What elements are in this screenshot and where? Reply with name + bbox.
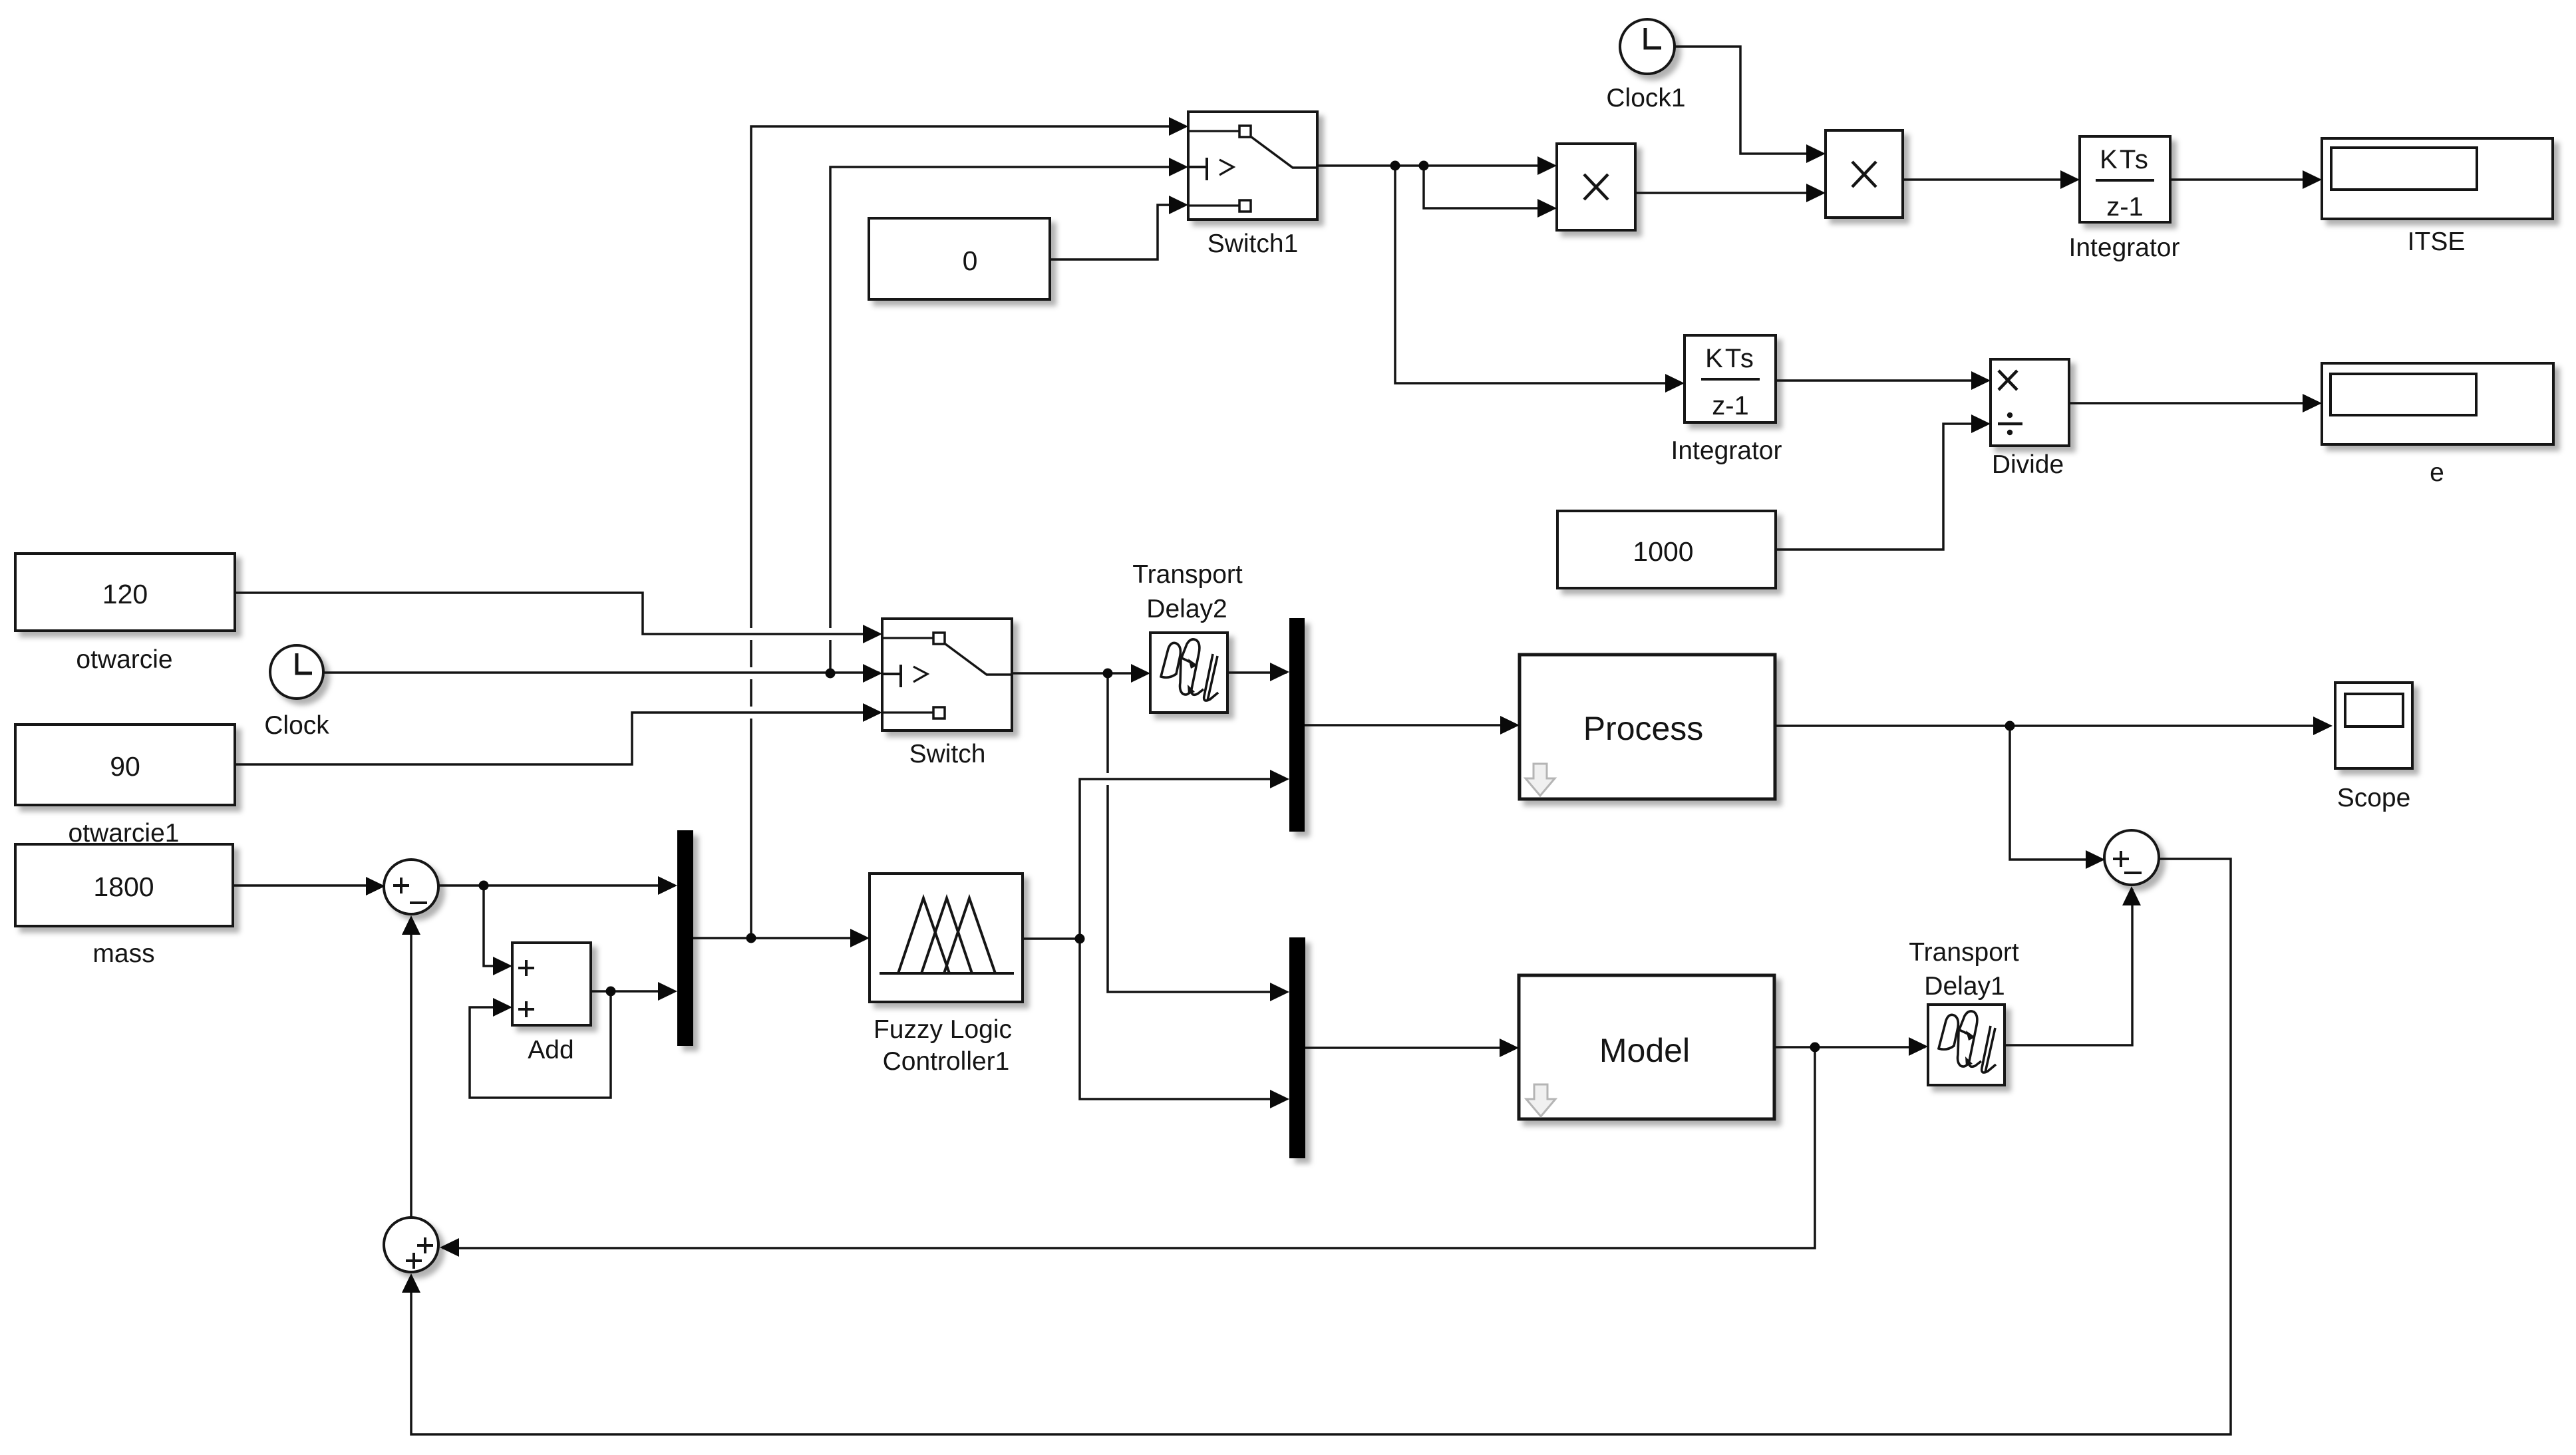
arrowhead into Divide input2 [1971,414,1991,433]
display block e [2322,363,2553,444]
junction 1 after Switch1 [1390,161,1400,171]
svg-text:Process: Process [1583,710,1704,747]
wire branch to Product input2 [1424,166,1554,208]
scope block Scope [2335,683,2412,768]
arrowhead into Transport Delay2 [1131,664,1150,683]
wire Switch output branch to Mux3 input1 [1108,673,1287,992]
FLC membership triangle 3 [944,898,995,973]
svg-text:Fuzzy Logic: Fuzzy Logic [874,1015,1012,1044]
Transport Delay2 icon [1161,639,1218,701]
arrowhead into Switch input2 [863,664,882,683]
svg-text:otwarcie: otwarcie [76,645,172,674]
Fuzzy Logic Controller1 membership baseline [880,972,1014,975]
svg-text:120: 120 [102,579,148,609]
wire Add output to Mux1 input2 [591,990,675,993]
svg-text:ITSE: ITSE [2408,228,2466,256]
svg-text:Switch: Switch [909,740,986,768]
ITSE display inner screen [2331,148,2477,190]
constant block otwarcie value 120 [15,554,235,631]
junction on Sum1 output [479,881,489,891]
svg-text:0: 0 [963,245,978,276]
wire constant 0 to Switch1 input3 [1050,205,1186,259]
arrowhead into Mux3 input1 [1270,983,1289,1001]
wire Fuzzy Logic Controller1 output to junction [1023,937,1080,940]
Transport Delay1 icon arrowheads [1965,1031,1975,1066]
svg-text:z-1: z-1 [2106,192,2144,222]
wire Sum2 output bottom feedback loop to Sum3 [411,859,2231,1434]
Model look-inside gray arrow [1526,1084,1555,1116]
arrowhead into Mux3 input2 [1270,1090,1289,1108]
constant block value 1000 [1557,511,1776,588]
Sum3 plus sign upper right [417,1237,433,1253]
svg-text:Transport: Transport [1909,938,2019,967]
junction on Add output [606,987,616,997]
arrowhead into Switch input3 [863,703,882,722]
arrowhead into Mux2 input2 [1270,770,1289,788]
Switch1 internal port line and square input3 [1188,204,1239,206]
wire junction to Switch1 input1 (vertical with crossover gaps) [751,126,1186,938]
arrowhead into Product input2 [1537,199,1557,218]
integrator block Integrator (top) [2080,136,2170,222]
Switch internal criteria mark |> [882,665,901,687]
wire Sum3 output to Sum1 bottom input [410,918,412,1217]
junction on FLC input wire [746,933,756,943]
mux Mux3 [1289,937,1305,1158]
svg-text:Model: Model [1599,1032,1690,1069]
arrowhead into Integrator top [2060,170,2080,189]
subsystem block Model [1519,975,1774,1119]
display block ITSE [2322,138,2553,219]
svg-text:KTs: KTs [1705,344,1756,373]
wire Switch1 branch to middle Integrator [1395,166,1682,383]
FLC membership triangle 1 [898,898,949,973]
sum junction Sum1 (+ -) [384,860,438,914]
arrowhead into Switch1 input3 [1169,196,1188,214]
constant block otwarcie1 value 90 [15,725,235,805]
svg-text:e: e [2430,458,2444,487]
Switch internal port line and square input1 [882,637,933,639]
arrowhead into Model [1500,1039,1519,1057]
clock source Clock [270,645,323,699]
Sum1 minus sign [410,901,427,904]
svg-text:Add: Add [528,1036,573,1064]
Sum3 plus sign lower [406,1253,422,1269]
Integrator top fraction line [2096,179,2154,182]
svg-text:Clock1: Clock1 [1606,84,1685,112]
switch block Switch1 [1188,112,1317,220]
junction after Switch output [1103,669,1113,679]
Switch internal port line and square input3 [882,711,933,713]
Add plus sign input2 [518,1001,534,1017]
product block Product1 [1826,130,1903,218]
Switch internal diagonal lever [945,644,1012,675]
Product multiply cross [1584,174,1608,200]
arrowhead into Divide input1 [1971,371,1991,390]
Transport Delay1 icon [1939,1011,1996,1072]
Process look-inside gray arrow [1526,764,1555,796]
Sum2 plus sign [2113,851,2129,867]
wire 1000 to Divide input2 [1776,424,1988,550]
wire Mux1 output to Fuzzy Logic Controller1 [693,937,867,939]
Integrator middle fraction line [1701,378,1760,381]
svg-text:z-1: z-1 [1712,391,1749,420]
fuzzy controller block Fuzzy Logic Controller1 [870,874,1023,1002]
wire Switch1 output to Product input1 [1317,164,1554,167]
svg-text:mass: mass [92,939,154,968]
mux Mux2 [1289,618,1305,832]
svg-text:Divide: Divide [1992,450,2064,479]
arrowhead into Switch input1 [863,625,882,643]
arrowhead into Sum3 bottom input [402,1273,420,1293]
svg-text:otwarcie1: otwarcie1 [69,819,180,848]
wire Transport Delay1 to Sum2 bottom input [2005,889,2132,1045]
constant block value 0 [869,218,1050,299]
arrowhead into Product1 input1 [1806,144,1826,163]
Switch1 internal diagonal lever [1251,137,1317,168]
FLC membership triangle 2 [921,898,972,973]
svg-text:Controller1: Controller1 [883,1047,1010,1076]
Product1 multiply cross [1852,162,1876,187]
wire Switch output to Transport Delay2 [1012,672,1148,675]
svg-text:Scope: Scope [2337,784,2411,812]
sum junction Sum2 (+ -) [2104,830,2159,885]
junction 2 after Switch1 [1419,161,1429,171]
wire Switch1 input2 branch (vertical with crossover gaps) [830,167,1186,673]
product block Product [1557,144,1635,230]
junction on Model output [1810,1043,1820,1052]
arrowhead into e display [2303,394,2322,412]
wire Product1 to Integrator [1903,178,2077,181]
Divide multiply symbol [1999,371,2017,390]
arrowhead into Switch1 input2 [1169,158,1188,176]
wire junction to Mux3 input2 [1080,939,1287,1099]
e display inner screen [2331,374,2476,415]
wire 120 to Switch input1 [235,593,880,634]
wire Clock to Switch input2 [323,671,880,674]
Transport Delay2 icon arrowheads [1188,659,1198,695]
Switch1 internal port line and square input1 [1188,130,1239,132]
wire Sum1 output to Mux1 input1 [438,884,675,887]
wire 90 to Switch input3 [235,713,880,764]
wire Model to Transport Delay1 [1774,1046,1925,1049]
svg-text:1000: 1000 [1633,536,1693,567]
wire Sum1 branch to Add input1 [484,886,510,966]
svg-text:KTs: KTs [2100,145,2150,174]
constant block mass value 1800 [15,844,233,926]
wire Mux3 output to Model [1305,1047,1516,1049]
Clock1 icon hands [1645,28,1661,48]
arrowhead into Product input1 [1537,156,1557,175]
svg-text:Delay2: Delay2 [1146,595,1227,623]
clock source Clock1 [1620,19,1675,74]
arrowhead into Scope [2313,717,2333,735]
wire Add feedback loop to Add input2 [470,991,611,1098]
transport delay block Transport Delay1 [1928,1005,2005,1085]
subsystem block Process [1520,655,1775,799]
arrowhead into Fuzzy Logic Controller1 [850,929,870,947]
arrowhead into Sum1 left input [366,877,385,895]
svg-text:Clock: Clock [264,711,329,740]
wire Model branch feedback to Sum3 right input [442,1047,1815,1248]
wire Transport Delay2 to Mux2 input1 [1227,671,1287,674]
arrowhead into Sum1 bottom input [402,915,420,935]
adder block Add [512,943,591,1025]
wire Product to Product1 input2 [1635,192,1823,194]
junction on Clock wire [826,669,836,679]
svg-text:1800: 1800 [93,872,154,902]
Sum1 plus sign [393,878,409,893]
Divide divide symbol [1998,422,2022,426]
divide block Divide [1991,359,2069,446]
wire Integrator to ITSE display [2170,178,2319,181]
arrowhead into Switch1 input1 [1169,117,1188,136]
junction on Process output [2005,721,2015,731]
wire junction to Mux2 input2 [1080,779,1287,939]
arrowhead into Integrator middle [1665,374,1685,393]
svg-text:Delay1: Delay1 [1924,972,2005,1001]
arrowhead into Add input2 [493,998,512,1017]
arrowhead into Transport Delay1 [1909,1037,1928,1056]
arrowhead into Mux2 input1 [1270,663,1289,681]
svg-text:Integrator: Integrator [2069,234,2180,262]
svg-text:90: 90 [110,751,140,782]
transport delay block Transport Delay2 [1150,633,1227,713]
sum junction Sum3 (+ +) [384,1217,438,1272]
wire Process branch to Sum2 [2010,726,2102,860]
Clock icon hands [297,653,312,673]
arrowhead into Mux1 input1 [658,876,677,895]
switch block Switch [882,619,1012,730]
junction on FLC output [1075,934,1085,944]
arrowhead into Add input1 [493,957,512,975]
wire 1800 to Sum1 [233,884,381,887]
arrowhead into ITSE [2303,170,2322,189]
integrator block Integrator (middle) [1685,335,1776,422]
wire Clock1 to Product1 input1 [1675,47,1823,154]
arrowhead into Sum3 right input [440,1238,459,1257]
Divide divide symbol dots [2007,412,2012,418]
arrowhead into Sum2 left input [2086,850,2105,869]
wire Mux2 output to Process [1305,724,1517,727]
arrowhead into Process [1500,716,1520,734]
svg-text:Integrator: Integrator [1671,436,1782,465]
arrowhead into Sum2 bottom input [2122,886,2141,905]
mux Mux1 [677,830,693,1046]
arrowhead into Mux1 input2 [658,982,677,1001]
Add plus sign input1 [518,960,534,976]
Scope inner screen [2345,694,2403,727]
Sum2 minus sign [2124,872,2142,874]
svg-text:Transport: Transport [1132,560,1243,589]
wire Divide to e display [2069,402,2319,404]
Switch1 internal criteria mark |> [1188,158,1207,180]
wire middle Integrator to Divide input1 [1776,379,1988,382]
svg-text:Switch1: Switch1 [1207,230,1299,258]
arrowhead into Product1 input2 [1806,184,1826,202]
wire Process to Scope [1775,725,2330,727]
